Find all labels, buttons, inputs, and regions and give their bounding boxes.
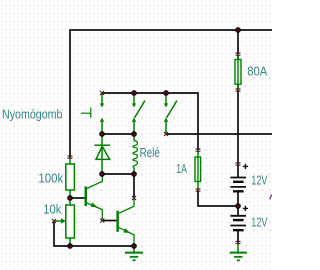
wire switch top	[102, 93, 198, 150]
svg-text:12V: 12V	[251, 215, 268, 229]
pushbutton contact	[81, 93, 104, 134]
pin end F1 top	[236, 53, 241, 55]
pin end R1 top	[68, 156, 73, 158]
diode D1 flyback	[94, 134, 110, 174]
pin end F2 top	[196, 149, 201, 151]
battery B1 12V	[230, 164, 248, 192]
wire contacts bottom	[166, 133, 272, 135]
pin end B1 plus	[236, 163, 241, 165]
wire top rail	[70, 30, 272, 158]
junction contacts top K1a	[132, 91, 137, 96]
junction R1-R2 / Q1 base	[68, 196, 73, 201]
relay coil	[133, 134, 137, 174]
transistor Q2	[116, 198, 134, 246]
wire battery1 leads	[237, 164, 239, 206]
svg-text:10k: 10k	[43, 202, 62, 216]
pin end B2 minus	[236, 242, 241, 244]
junction top rail / fuse branch	[236, 28, 241, 33]
wire node relay bottom	[102, 173, 134, 175]
junction emitter ground node	[132, 244, 137, 249]
battery B2 12V	[230, 206, 248, 230]
pin end K1 contact bottom	[164, 132, 168, 136]
svg-text:12V: 12V	[251, 173, 268, 187]
svg-text:Relé: Relé	[140, 146, 160, 160]
pin end R2 wiper	[52, 219, 56, 223]
svg-text:Nyomógomb: Nyomógomb	[2, 108, 63, 122]
transistor Q1	[85, 174, 103, 221]
junction coil bottom	[132, 172, 137, 177]
junction coil top	[132, 132, 137, 137]
wire relay bottom to Q2 collector pin	[133, 174, 135, 198]
relay contact SW3	[164, 93, 177, 134]
svg-text:1A: 1A	[176, 162, 187, 176]
junction diode bottom / Q1 collector	[100, 172, 105, 177]
junction battery midpoint	[236, 204, 241, 209]
svg-text:80A: 80A	[247, 65, 268, 79]
fuse F1 80A	[235, 54, 241, 90]
pin end F2 bottom	[196, 189, 201, 191]
pin end S1 top	[100, 91, 104, 95]
junction diode top	[100, 132, 105, 137]
relay contact SW2	[132, 93, 145, 134]
net label fragment (purple)	[270, 195, 272, 200]
wire 1A fuse to battery midpoint	[198, 190, 238, 206]
svg-text:100k: 100k	[38, 171, 64, 185]
wire battery2 leads	[237, 206, 239, 243]
resistor R1 100k	[66, 158, 75, 198]
wire battery column	[237, 30, 239, 164]
wire node relay top	[102, 133, 134, 135]
pin end Q2 collector	[132, 196, 136, 200]
wire Q1 emitter to Q2 base	[102, 220, 116, 222]
fuse F2 1A	[195, 150, 201, 190]
resistor R2 10k (trimmer)	[54, 198, 74, 246]
ground GND2	[230, 243, 247, 260]
wire R1-R2 junction to Q1 base	[70, 197, 85, 199]
junction contacts top K1b	[164, 91, 169, 96]
junction R2 bottom	[68, 244, 73, 249]
ground GND1	[125, 246, 143, 260]
pin end Q1 emitter	[100, 219, 104, 223]
wire wiper return	[54, 221, 134, 246]
pin end F1 bottom	[236, 89, 241, 91]
